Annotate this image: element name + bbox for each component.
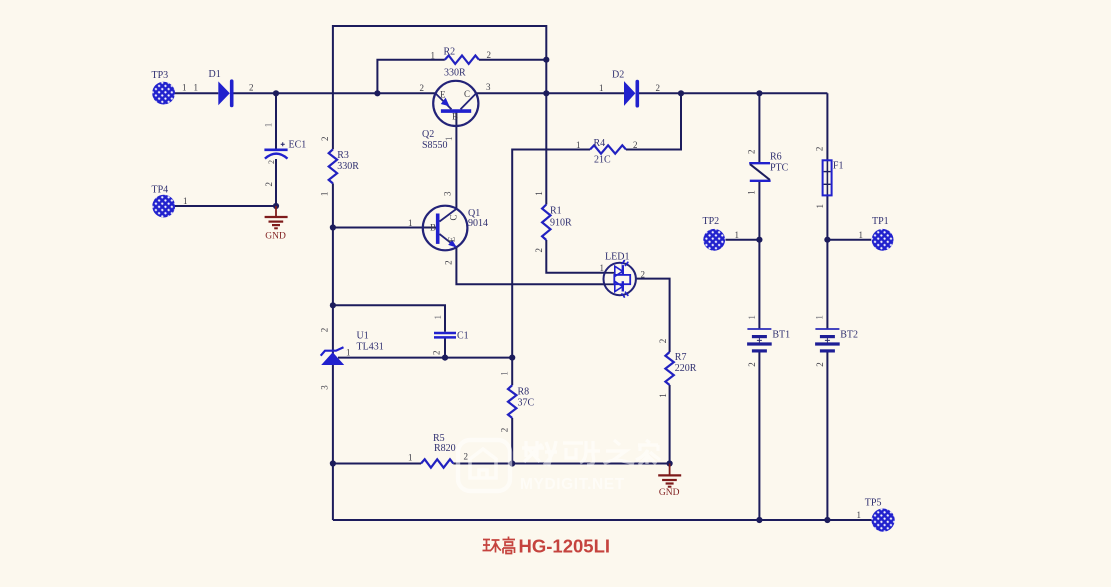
transistor Q2 (433, 81, 478, 126)
junction x546 main (543, 90, 549, 96)
title HG-1205LI (483, 536, 611, 557)
label Q1 name (468, 208, 480, 219)
wire TP1 node to BT2 (826, 240, 828, 329)
svg-text:1: 1 (408, 452, 413, 462)
svg-text:37C: 37C (518, 398, 535, 409)
svg-text:R6: R6 (770, 152, 782, 163)
resistor R2 (445, 56, 479, 64)
svg-text:C: C (449, 214, 459, 220)
led LED1 (604, 260, 636, 298)
pin 2 C1 side (432, 351, 442, 356)
resistor R3 (329, 149, 337, 183)
wire R3 bottom to U1 and bottom rail (332, 183, 334, 520)
ground GND near TP4 (265, 206, 288, 228)
pin 1 EC1 side (264, 123, 274, 128)
svg-text:MYDIGIT.NET: MYDIGIT.NET (520, 476, 625, 493)
pin 2 BT1 side (747, 362, 757, 367)
junction R8 bottom (509, 460, 515, 466)
svg-text:1: 1 (319, 192, 329, 197)
wire BT2 to bottom rail (826, 352, 828, 520)
svg-text:1: 1 (859, 230, 864, 240)
label R2 value (444, 68, 466, 79)
junction rail BT1 (756, 517, 762, 523)
ground GND bottom (658, 464, 681, 487)
svg-text:HG-1205LI: HG-1205LI (519, 536, 611, 557)
pin 2 R2 (487, 50, 492, 60)
pin 1 R4 (576, 140, 581, 150)
resistor R7 (665, 352, 673, 385)
svg-text:3: 3 (486, 82, 491, 92)
testpoint pad TP4 (152, 195, 175, 218)
pin 2 Q1 bot (443, 260, 453, 265)
junction x546 R2 (543, 57, 549, 63)
wire R4 pin1 leg (512, 150, 590, 358)
svg-text:D2: D2 (612, 69, 624, 80)
label R4 (594, 138, 606, 149)
pin 2 F1 side (814, 147, 824, 152)
resistor R5 (421, 459, 453, 467)
svg-text:21C: 21C (594, 155, 611, 166)
junction bottom left (330, 460, 336, 466)
junction Q1 base (330, 224, 336, 230)
svg-text:1: 1 (534, 191, 544, 196)
svg-text:1: 1 (194, 83, 199, 93)
label R7 (675, 352, 687, 363)
wire U1 cathode branch (333, 305, 445, 332)
wire bottom R5 left (333, 463, 421, 465)
pin 1 R7 side (658, 393, 668, 398)
svg-text:Q2: Q2 (422, 129, 434, 140)
wire TP2 stub (726, 239, 760, 241)
wire EC1 to ground node (275, 159, 277, 206)
label Q2 pin E (440, 89, 446, 99)
label U1 value (357, 342, 384, 353)
pin 1 R2 (431, 50, 436, 60)
svg-text:910R: 910R (550, 218, 572, 229)
pin 1 TP3 net (182, 83, 187, 93)
label EC1 (289, 140, 307, 151)
label GND near TP4 (265, 232, 286, 242)
label R6 value (770, 163, 789, 174)
svg-text:1: 1 (815, 204, 825, 209)
svg-text:BT1: BT1 (772, 329, 790, 340)
svg-text:R820: R820 (434, 443, 456, 454)
wire TP4 to ground node (175, 205, 276, 207)
pin 1 Q1 (408, 218, 413, 228)
wire F1 to TP1 node (826, 195, 828, 239)
pin 2 U1 side (320, 328, 330, 333)
svg-text:220R: 220R (675, 363, 697, 374)
label R8 (518, 386, 530, 397)
wire R6 to TP2 node (758, 181, 760, 240)
pin 1 BT2 side (814, 315, 824, 320)
svg-text:2: 2 (641, 269, 646, 279)
label R5 value (434, 443, 456, 454)
svg-text:2: 2 (814, 147, 824, 152)
svg-text:1: 1 (857, 510, 862, 520)
wire Q1 emitter to LED1 pin3 (456, 247, 604, 284)
svg-text:TP5: TP5 (865, 498, 882, 509)
pin 2 BT2 side (815, 362, 825, 367)
wire R4 to main rail (626, 93, 681, 149)
label R3 value (337, 161, 359, 172)
svg-text:2: 2 (487, 50, 492, 60)
junction EC1 top (273, 90, 279, 96)
pin 3 Q1 top (442, 191, 452, 196)
svg-text:2: 2 (264, 182, 274, 187)
wire R7 to GND node (669, 385, 671, 464)
svg-text:2: 2 (747, 362, 757, 367)
svg-text:R8: R8 (518, 386, 530, 397)
pin 2 D1 (249, 83, 254, 93)
label D2 (612, 69, 624, 80)
wire bottom rail (333, 519, 872, 521)
svg-text:1: 1 (500, 371, 510, 376)
svg-text:2: 2 (249, 83, 254, 93)
pin 1 F1 side (815, 204, 825, 209)
svg-text:1: 1 (576, 140, 581, 150)
pin 2 R3 side (320, 137, 330, 142)
wire Q2 base to Q1 collector (455, 112, 457, 209)
svg-text:C: C (464, 89, 470, 99)
label BT2 (840, 329, 858, 340)
label R3 (337, 150, 349, 161)
svg-text:TP1: TP1 (872, 216, 889, 227)
wire bottom R5 right to GND (453, 463, 669, 465)
svg-text:1: 1 (658, 393, 668, 398)
junction TP1 (824, 237, 830, 243)
junction ref node R8 (509, 355, 515, 361)
label TP4 (152, 185, 169, 196)
svg-text:R4: R4 (594, 138, 606, 149)
junction R2 left leg (374, 90, 380, 96)
wire LED1 pin2 down to GND node (636, 279, 670, 352)
wire R2 left leg (377, 60, 444, 94)
testpoint pad TP3 (152, 82, 175, 105)
wire right column x827 top (826, 93, 828, 160)
wire vertical x546 R2 to main (545, 60, 547, 94)
label Q1 pin B (430, 223, 436, 233)
svg-text:2: 2 (633, 140, 638, 150)
label F1 (833, 161, 844, 172)
wire R2 right to vertical (479, 59, 546, 61)
svg-text:GND: GND (265, 232, 286, 242)
svg-text:R7: R7 (675, 352, 687, 363)
pin 1 R8 side (500, 371, 510, 376)
pin 2 D2 (656, 83, 661, 93)
svg-text:1: 1 (264, 123, 274, 128)
label R4 value (594, 155, 611, 166)
pin 2 R1 side (534, 248, 544, 253)
svg-text:9014: 9014 (468, 218, 488, 229)
pin 1 TP1 (859, 230, 864, 240)
svg-text:1: 1 (814, 315, 824, 320)
wire EC1 branch (275, 93, 277, 149)
battery BT2 (815, 329, 840, 351)
wire R1 bottom to LED1 pin1 (546, 240, 605, 273)
wire TP2 node to BT1 (758, 240, 760, 329)
svg-text:2: 2 (443, 260, 453, 265)
svg-text:2: 2 (320, 328, 330, 333)
svg-text:E: E (447, 236, 457, 242)
svg-text:F1: F1 (833, 161, 844, 172)
resistor R4 (590, 145, 626, 153)
junction rail BT2 (824, 517, 830, 523)
wire vertical x546 main to R1 (545, 93, 547, 204)
pin 1 TP2 (735, 230, 740, 240)
pin 1 U1 (346, 347, 351, 357)
svg-text:1: 1 (599, 83, 604, 93)
svg-text:C1: C1 (457, 331, 469, 342)
svg-text:TP3: TP3 (152, 70, 169, 81)
pin 2 Q2 (420, 83, 425, 93)
svg-text:3: 3 (320, 385, 330, 390)
svg-text:1: 1 (433, 315, 443, 320)
capacitor EC1 (264, 142, 287, 158)
junction R4 right (678, 90, 684, 96)
svg-text:U1: U1 (357, 331, 369, 342)
wire BT1 to bottom rail (758, 352, 760, 520)
wire C1 bottom to node (444, 338, 446, 357)
wire D1 to Q2 emitter side (234, 92, 436, 94)
pin 1 LED1 (600, 263, 605, 273)
wire D2 to top-right corner (639, 92, 828, 94)
resistor R8 (508, 385, 516, 418)
label R2 (444, 47, 456, 58)
svg-text:BT2: BT2 (840, 329, 858, 340)
svg-text:GND: GND (659, 488, 680, 498)
label Q1 value (468, 218, 488, 229)
wire Q2 collector to D2 (476, 92, 624, 94)
svg-text:R3: R3 (337, 150, 349, 161)
pin 1 R6 side (747, 190, 757, 195)
svg-text:1: 1 (747, 190, 757, 195)
svg-text:PTC: PTC (770, 163, 789, 174)
wire Q1 base (333, 227, 437, 229)
pin 2 EC1 side (264, 182, 274, 187)
svg-text:2: 2 (656, 83, 661, 93)
svg-text:330R: 330R (444, 68, 466, 79)
label Q1 pin E (447, 236, 457, 242)
wire R8 to bottom wire (511, 418, 513, 464)
svg-text:2: 2 (267, 160, 276, 164)
wire F1 internal (826, 160, 828, 195)
capacitor C1 (434, 333, 456, 337)
wire TP1 stub (827, 239, 871, 241)
label C1 (457, 331, 469, 342)
svg-text:1: 1 (444, 137, 454, 142)
resistor R1 (542, 205, 550, 241)
label R5 (433, 433, 445, 444)
label R1 (550, 206, 562, 217)
shunt regulator U1 TL431 (321, 347, 345, 365)
svg-text:2: 2 (815, 362, 825, 367)
svg-text:D1: D1 (209, 69, 221, 80)
wire top rail of R2 loop (333, 26, 546, 149)
junction TP4 ground (273, 203, 279, 209)
svg-text:2: 2 (432, 351, 442, 356)
wire U1 ref to R8 node (338, 357, 512, 359)
thermistor R6 PTC (749, 163, 770, 181)
label LED1 (605, 252, 629, 263)
label TP2 (703, 216, 720, 227)
svg-text:R1: R1 (550, 206, 562, 217)
label Q2 value (422, 140, 448, 151)
pin 2 R6 side (747, 150, 757, 155)
svg-text:1: 1 (346, 347, 351, 357)
label GND bottom (659, 488, 680, 498)
svg-text:1: 1 (182, 83, 187, 93)
pin 2 R5 (464, 452, 469, 462)
svg-text:330R: 330R (337, 161, 359, 172)
svg-text:1: 1 (600, 263, 605, 273)
svg-text:1: 1 (183, 196, 188, 206)
testpoint pad TP1 (872, 229, 894, 251)
pin 1 Q2 base (444, 137, 454, 142)
svg-text:TP2: TP2 (703, 216, 720, 227)
pin 2 EC1 mid (267, 160, 276, 164)
junction x759 main (756, 90, 762, 96)
svg-text:1: 1 (408, 218, 413, 228)
transistor Q1 (423, 206, 468, 251)
svg-text:TL431: TL431 (357, 342, 384, 353)
pin 3 U1 side (320, 385, 330, 390)
pin 2 R7 side (658, 339, 668, 344)
svg-text:2: 2 (420, 83, 425, 93)
svg-text:LED1: LED1 (605, 252, 629, 263)
label U1 (357, 331, 369, 342)
svg-text:2: 2 (747, 150, 757, 155)
testpoint pad TP5 (872, 508, 895, 531)
pin 1 R5 (408, 452, 413, 462)
svg-text:1: 1 (431, 50, 436, 60)
svg-text:2: 2 (320, 137, 330, 142)
svg-text:3: 3 (442, 191, 452, 196)
label Q2 pin C (464, 89, 470, 99)
junction GND2 node (667, 460, 673, 466)
label R8 value (518, 398, 535, 409)
label BT1 (772, 329, 790, 340)
label R6 (770, 152, 782, 163)
pin 3 Q2 (486, 82, 491, 92)
label Q2 name (422, 129, 434, 140)
label R7 value (675, 363, 697, 374)
label Q2 pin B (452, 112, 458, 122)
fuse F1 (823, 160, 832, 195)
diode D2 (624, 81, 637, 106)
svg-text:1: 1 (735, 230, 740, 240)
svg-text:B: B (452, 112, 458, 122)
pin 1 TP4 (183, 196, 188, 206)
junction C1 bottom (442, 355, 448, 361)
wire main rail TP3 to D1 (174, 92, 218, 94)
svg-text:E: E (440, 89, 446, 99)
label Q1 pin C (449, 214, 459, 220)
junction U1 top branch (330, 302, 336, 308)
battery BT1 (747, 329, 772, 351)
svg-text:1: 1 (747, 315, 757, 320)
svg-text:2: 2 (500, 428, 510, 433)
watermark mydigit logo (458, 440, 660, 493)
pin 1 BT1 side (747, 315, 757, 320)
svg-text:B: B (430, 223, 436, 233)
label D1 (209, 69, 221, 80)
pin 2 R4 (633, 140, 638, 150)
svg-text:2: 2 (464, 452, 469, 462)
pin 1 R1 side (534, 191, 544, 196)
svg-text:2: 2 (534, 248, 544, 253)
testpoint pad TP2 (703, 229, 725, 251)
pin 1 R3 side (319, 192, 329, 197)
svg-text:2: 2 (658, 339, 668, 344)
pin 2 LED1 (641, 269, 646, 279)
svg-text:TP4: TP4 (152, 185, 169, 196)
diode D1 (218, 81, 231, 105)
wire node to R8 (511, 358, 513, 386)
pin 2 R8 side (500, 428, 510, 433)
label TP3 (152, 70, 169, 81)
wire right column x759 top (758, 93, 760, 163)
junction TP2 (756, 237, 762, 243)
svg-text:R2: R2 (444, 47, 456, 58)
label TP1 (872, 216, 889, 227)
pin 1 C1 side (433, 315, 443, 320)
pin 1 D1 (194, 83, 199, 93)
label R1 value (550, 218, 572, 229)
label TP5 (865, 498, 882, 509)
pin 1 TP5 (857, 510, 862, 520)
pin 1 D2 (599, 83, 604, 93)
svg-text:EC1: EC1 (289, 140, 307, 151)
